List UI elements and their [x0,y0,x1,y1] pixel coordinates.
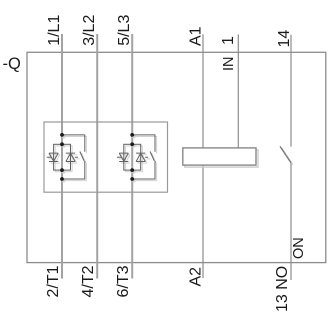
svg-text:A1: A1 [188,26,205,46]
wire contact terminal 14 [290,35,292,147]
wire control IN 1 [237,34,239,147]
thyristor module phase L1 : shadow [48,135,86,183]
svg-text:1/L1: 1/L1 [46,15,63,46]
bypass contact branch [62,135,85,179]
thyristor module phase L3 (SCR pair V2 + bypass contact) [117,133,155,181]
ON contact blade (13-14) [280,146,291,163]
svg-text:6/T3: 6/T3 [115,265,132,297]
svg-text:5/L3: 5/L3 [116,15,133,46]
thyristor left (down) [47,153,58,161]
wire control A2 [202,165,204,278]
thyristor right (up) [66,153,78,161]
wire control A1 [202,34,204,147]
wire phase L2 (3/L2 to 4/T2) [96,34,98,279]
svg-text:1: 1 [220,36,237,45]
wire phase L1 (1/L1 to 2/T1) [61,34,63,279]
svg-text:13 NO: 13 NO [274,266,291,312]
svg-text:14: 14 [276,30,293,48]
wire contact terminal 13 [290,163,292,280]
device outline box -Q [27,52,326,262]
control unit box A1/A2 [183,148,256,165]
thyristor module phase L1 (SCR pair V1 + bypass contact) [47,133,85,181]
svg-text:A2: A2 [187,267,204,287]
junction dots [60,133,64,181]
svg-text:IN: IN [221,57,237,72]
svg-text:2/T1: 2/T1 [45,265,62,297]
control unit box A1/A2 : shadow [185,150,258,167]
svg-text:3/L2: 3/L2 [81,15,98,46]
wire phase L3 (5/L3 to 6/T3) [131,34,133,279]
svg-text:4/T2: 4/T2 [80,265,97,297]
thyristor module phase L3 : shadow [119,135,157,183]
svg-text:ON: ON [291,237,307,259]
SCR branch box [54,144,71,170]
thyristor enclosure box [44,122,168,192]
svg-text:-Q: -Q [3,55,21,73]
ON contact blade : shadow [282,148,293,165]
